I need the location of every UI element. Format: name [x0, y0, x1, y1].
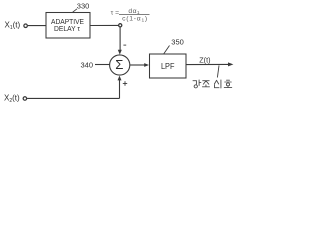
svg-text:350: 350 — [171, 38, 184, 47]
svg-text:330: 330 — [77, 2, 90, 11]
svg-text:Z(t): Z(t) — [199, 55, 210, 64]
svg-text:340: 340 — [81, 61, 94, 70]
svg-text:X1(t): X1(t) — [5, 20, 21, 31]
svg-text:τ =: τ = — [111, 9, 120, 16]
svg-text:c(1-α1): c(1-α1) — [122, 16, 148, 24]
svg-text:X2(t): X2(t) — [4, 93, 20, 104]
svg-text:Σ: Σ — [115, 57, 123, 72]
svg-text:LPF: LPF — [161, 62, 175, 71]
svg-text:DELAY τ: DELAY τ — [54, 24, 80, 33]
